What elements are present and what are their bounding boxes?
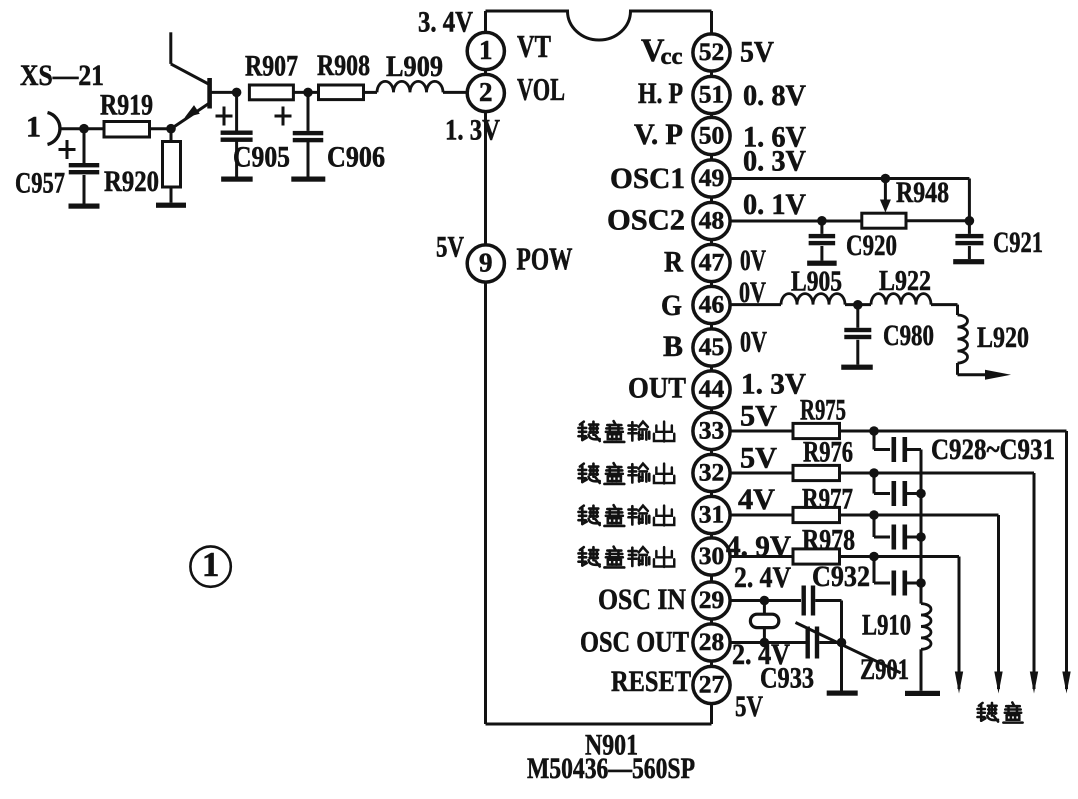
svg-text:1. 3V: 1. 3V — [741, 368, 806, 401]
svg-text:9: 9 — [479, 248, 493, 278]
svg-text:B: B — [663, 330, 683, 363]
svg-text:C932: C932 — [812, 560, 870, 593]
svg-text:C957: C957 — [15, 167, 65, 200]
svg-text:27: 27 — [699, 670, 725, 699]
svg-text:47: 47 — [699, 248, 725, 277]
svg-text:0. 1V: 0. 1V — [743, 188, 806, 221]
svg-text:H. P: H. P — [638, 77, 683, 110]
svg-text:L920: L920 — [977, 321, 1029, 354]
svg-text:VOL: VOL — [517, 72, 565, 107]
svg-text:OSC2: OSC2 — [607, 204, 685, 237]
svg-text:R908: R908 — [317, 49, 370, 82]
svg-text:C980: C980 — [883, 319, 934, 352]
svg-text:Z901: Z901 — [860, 653, 909, 686]
svg-text:M50436—560SP: M50436—560SP — [527, 752, 695, 785]
svg-text:R975: R975 — [800, 394, 846, 427]
svg-text:5V: 5V — [740, 442, 777, 475]
svg-text:50: 50 — [699, 121, 725, 150]
svg-text:R948: R948 — [896, 176, 949, 209]
svg-text:R: R — [664, 246, 683, 279]
svg-text:1: 1 — [26, 111, 41, 144]
svg-text:52: 52 — [699, 37, 725, 66]
svg-text:OSC IN: OSC IN — [598, 583, 686, 616]
svg-text:0V: 0V — [739, 276, 766, 309]
svg-text:OUT: OUT — [628, 372, 686, 405]
svg-text:1: 1 — [202, 545, 220, 584]
svg-text:32: 32 — [699, 458, 725, 487]
svg-text:C905: C905 — [233, 141, 290, 174]
svg-text:C920: C920 — [846, 229, 897, 262]
svg-text:0V: 0V — [740, 244, 766, 277]
svg-text:1: 1 — [479, 35, 493, 65]
svg-text:5V: 5V — [735, 690, 763, 723]
svg-text:1. 3V: 1. 3V — [445, 114, 500, 147]
svg-text:4. 9V: 4. 9V — [726, 530, 791, 563]
svg-text:R978: R978 — [802, 524, 855, 557]
svg-text:L922: L922 — [879, 265, 931, 297]
svg-text:3. 4V: 3. 4V — [418, 6, 473, 39]
svg-text:44: 44 — [699, 374, 725, 403]
svg-text:C933: C933 — [760, 662, 814, 695]
svg-text:28: 28 — [699, 627, 725, 656]
svg-text:51: 51 — [699, 80, 725, 109]
svg-text:G: G — [661, 289, 682, 322]
svg-text:29: 29 — [699, 585, 725, 614]
svg-text:33: 33 — [699, 416, 725, 445]
svg-text:R976: R976 — [803, 436, 853, 469]
svg-text:30: 30 — [699, 541, 725, 570]
svg-text:4V: 4V — [738, 483, 775, 516]
svg-text:L909: L909 — [386, 50, 443, 83]
svg-text:0. 3V: 0. 3V — [743, 145, 806, 178]
svg-text:5V: 5V — [740, 400, 777, 433]
svg-text:R907: R907 — [245, 50, 298, 83]
svg-text:XS—21: XS—21 — [20, 59, 104, 92]
svg-text:POW: POW — [517, 242, 573, 277]
svg-text:0. 8V: 0. 8V — [743, 79, 806, 112]
svg-text:R920: R920 — [104, 165, 159, 198]
svg-text:49: 49 — [699, 163, 725, 192]
svg-text:31: 31 — [699, 500, 725, 529]
svg-text:R919: R919 — [100, 89, 153, 122]
svg-text:L910: L910 — [862, 609, 911, 642]
svg-text:5V: 5V — [436, 231, 464, 264]
svg-text:R977: R977 — [802, 483, 853, 516]
svg-text:cc: cc — [661, 44, 683, 70]
svg-text:C906: C906 — [327, 141, 385, 174]
svg-text:OSC OUT: OSC OUT — [580, 626, 689, 659]
svg-text:OSC1: OSC1 — [610, 162, 685, 195]
svg-text:5V: 5V — [740, 36, 774, 69]
svg-text:C928~C931: C928~C931 — [931, 433, 1055, 466]
svg-text:45: 45 — [699, 332, 725, 361]
svg-text:RESET: RESET — [611, 665, 691, 698]
svg-text:L905: L905 — [791, 266, 842, 298]
svg-text:2: 2 — [479, 77, 493, 107]
svg-text:2. 4V: 2. 4V — [734, 561, 791, 594]
svg-text:VT: VT — [517, 29, 551, 64]
svg-text:46: 46 — [699, 290, 725, 319]
svg-text:C921: C921 — [993, 226, 1043, 259]
svg-text:48: 48 — [699, 206, 725, 235]
svg-text:0V: 0V — [740, 326, 767, 359]
svg-text:V. P: V. P — [634, 118, 683, 151]
